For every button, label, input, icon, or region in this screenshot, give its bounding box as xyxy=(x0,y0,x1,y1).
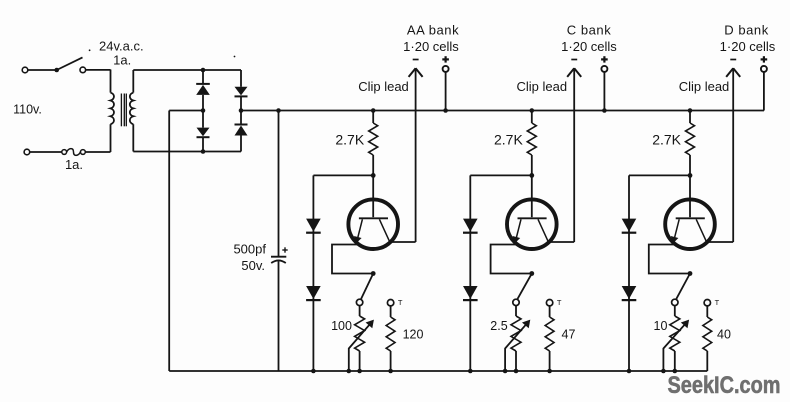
svg-text:T: T xyxy=(557,298,562,307)
svg-text:1·20 cells: 1·20 cells xyxy=(720,39,776,54)
svg-text:2.7K: 2.7K xyxy=(335,131,364,147)
svg-text:120: 120 xyxy=(403,328,424,342)
svg-text:1a.: 1a. xyxy=(113,53,131,68)
svg-text:1·20 cells: 1·20 cells xyxy=(403,39,459,54)
svg-text:2.5: 2.5 xyxy=(490,319,507,333)
svg-text:110v.: 110v. xyxy=(13,103,42,117)
svg-text:Clip lead: Clip lead xyxy=(679,79,730,94)
svg-text:SeekIC.com: SeekIC.com xyxy=(668,373,781,399)
svg-text:2.7K: 2.7K xyxy=(652,131,681,147)
svg-text:T: T xyxy=(398,298,403,307)
svg-text:24v.a.c.: 24v.a.c. xyxy=(99,39,144,54)
svg-text:1a.: 1a. xyxy=(65,157,83,172)
svg-text:Clip lead: Clip lead xyxy=(358,79,409,94)
svg-text:Clip lead: Clip lead xyxy=(517,79,568,94)
svg-text:D bank: D bank xyxy=(724,22,769,37)
svg-text:T: T xyxy=(715,298,720,307)
svg-text:40: 40 xyxy=(717,328,731,342)
svg-text:C bank: C bank xyxy=(567,22,612,37)
svg-text:1·20 cells: 1·20 cells xyxy=(561,39,617,54)
svg-text:2.7K: 2.7K xyxy=(494,131,523,147)
svg-text:500pf: 500pf xyxy=(233,242,266,257)
svg-text:100: 100 xyxy=(331,319,352,333)
svg-text:47: 47 xyxy=(562,328,576,342)
svg-text:AA bank: AA bank xyxy=(407,22,459,37)
svg-text:10: 10 xyxy=(654,319,668,333)
svg-text:50v.: 50v. xyxy=(241,258,265,273)
